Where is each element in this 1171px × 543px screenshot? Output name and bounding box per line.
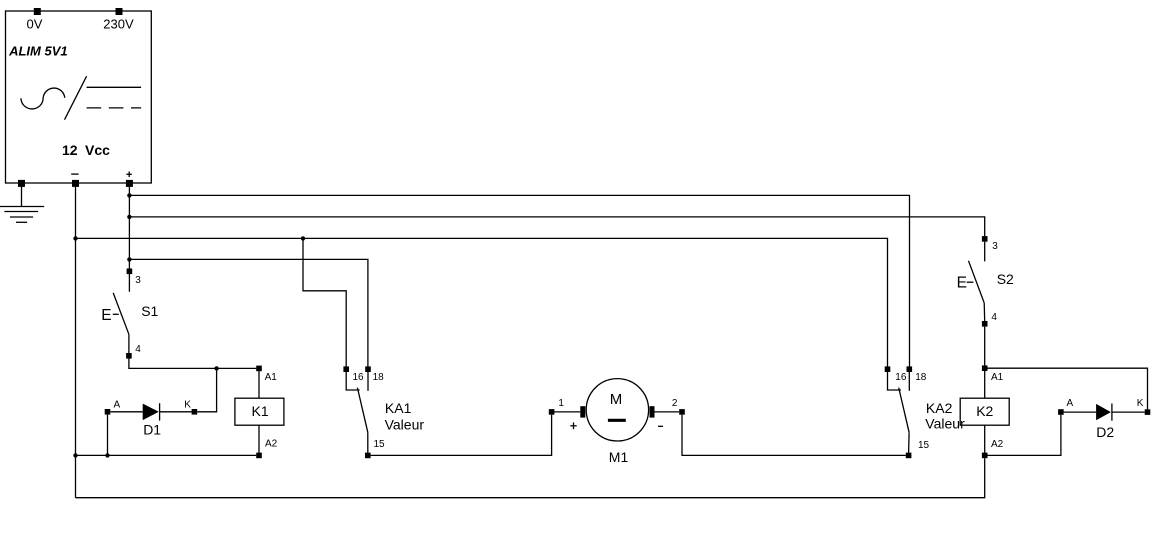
svg-text:D1: D1	[143, 422, 161, 438]
motor minus sign	[658, 425, 663, 427]
svg-text:12: 12	[62, 142, 78, 158]
motor terminal 1	[549, 409, 555, 415]
supply minus sign	[71, 173, 78, 175]
wire minus bus to KA2 pin 16	[76, 238, 888, 366]
wire plus to KA1 pin 18	[129, 259, 368, 366]
wire D1 anode down	[107, 415, 109, 456]
D1 cathode terminal	[192, 409, 198, 415]
svg-text:M: M	[610, 391, 623, 408]
KA2 terminal 18	[907, 366, 913, 372]
svg-text:A: A	[1067, 398, 1074, 409]
svg-text:3: 3	[135, 275, 141, 286]
svg-text:KA1: KA1	[385, 400, 412, 416]
relay contact KA1	[346, 372, 368, 453]
D1 anode terminal	[105, 409, 111, 415]
wire ground stem	[21, 183, 23, 206]
svg-text:E: E	[101, 307, 111, 324]
svg-text:S2: S2	[997, 271, 1014, 287]
supply terminal plus	[126, 180, 133, 187]
K1 terminal A1	[256, 366, 262, 372]
wire K1 A1 to coil	[258, 371, 260, 398]
svg-text:230V: 230V	[103, 16, 134, 31]
power supply U1 box ALIM 5V1	[6, 11, 152, 183]
wire plus vertical to S1 pin 3	[128, 183, 130, 268]
svg-text:18: 18	[373, 372, 385, 383]
wire K2 coil to A2	[984, 425, 986, 453]
junction node on plus bus 3	[127, 257, 131, 261]
KA2 terminal 16	[885, 366, 891, 372]
svg-text:K2: K2	[976, 403, 993, 419]
diode D2	[1064, 404, 1145, 421]
wire minus vertical bus	[75, 183, 77, 497]
AC/DC converter symbol	[21, 76, 141, 120]
wire K2 A1 to D2 cathode	[988, 368, 1148, 409]
wire plus to S2 pin 3	[129, 217, 984, 236]
junction node minus bus to KA1-16	[301, 236, 305, 240]
supply plus sign	[126, 172, 131, 178]
svg-text:16: 16	[895, 372, 907, 383]
svg-text:0V: 0V	[27, 17, 43, 32]
wire S2 pin4 to K2 A1	[984, 327, 986, 366]
svg-text:Vcc: Vcc	[85, 142, 110, 158]
K2 terminal A2	[982, 453, 988, 459]
svg-text:A1: A1	[991, 372, 1004, 383]
ground symbol	[0, 207, 44, 223]
D2 cathode terminal	[1145, 409, 1151, 415]
svg-text:ALIM 5V1: ALIM 5V1	[8, 44, 68, 59]
svg-text:M1: M1	[609, 449, 629, 465]
relay coil K1	[235, 398, 284, 425]
junction node S1-4 / D1 cathode	[214, 366, 218, 370]
svg-text:4: 4	[135, 344, 141, 355]
svg-text:A1: A1	[265, 372, 278, 383]
svg-text:K: K	[184, 400, 191, 411]
switch S1	[113, 274, 130, 353]
junction node D1 anode rail	[105, 453, 109, 457]
svg-text:S1: S1	[141, 303, 158, 319]
D2 anode terminal	[1058, 409, 1064, 415]
svg-text:D2: D2	[1096, 424, 1114, 440]
svg-text:K1: K1	[252, 403, 269, 419]
svg-text:18: 18	[915, 372, 927, 383]
wire K1 coil to A2	[258, 425, 260, 453]
svg-text:A2: A2	[265, 439, 278, 450]
diode D1	[110, 403, 191, 420]
S1 pin 4 terminal	[126, 353, 132, 359]
relay contact KA2	[888, 372, 910, 453]
motor M1	[554, 379, 679, 441]
supply terminal 230V	[116, 8, 123, 15]
svg-text:A2: A2	[991, 439, 1004, 450]
supply ground terminal	[18, 180, 25, 187]
svg-text:Valeur: Valeur	[385, 416, 425, 432]
svg-text:4: 4	[991, 312, 997, 323]
KA1 terminal 15	[365, 453, 371, 459]
supply terminal minus	[72, 180, 79, 187]
svg-text:15: 15	[918, 440, 930, 451]
junction node minus rail left	[73, 453, 77, 457]
wire left A2 rail	[76, 454, 257, 456]
svg-text:A: A	[114, 400, 121, 411]
supply terminal 0V	[34, 8, 41, 15]
svg-text:1: 1	[558, 398, 564, 409]
svg-text:16: 16	[353, 372, 365, 383]
svg-text:3: 3	[992, 241, 998, 252]
svg-text:E: E	[957, 274, 967, 291]
relay coil K2	[960, 398, 1009, 425]
wire S1 pin4 to K1 A1	[129, 359, 256, 369]
wire D1 cathode to node	[197, 368, 216, 411]
K1 terminal A2	[256, 453, 262, 459]
wire K2 A1 to coil	[984, 371, 986, 398]
junction node on minus bus	[73, 236, 77, 240]
svg-text:Valeur: Valeur	[925, 416, 965, 432]
KA2 terminal 15	[906, 453, 912, 459]
motor plus sign	[570, 422, 576, 429]
svg-text:2: 2	[672, 398, 678, 409]
svg-text:15: 15	[374, 439, 386, 450]
wire K2 A2 to D2 anode	[988, 415, 1061, 456]
K2 terminal A1	[982, 365, 988, 371]
motor terminal 2	[679, 409, 685, 415]
wire KA1 pin15 to motor pin1	[371, 415, 552, 456]
wire minus bus to KA1 pin 16	[303, 238, 346, 366]
junction node on plus bus 2	[127, 215, 131, 219]
KA1 terminal 18	[365, 366, 371, 372]
wire bottom return rail	[76, 458, 985, 497]
wire plus to KA2 pin 18	[129, 195, 909, 366]
svg-text:K: K	[1137, 398, 1144, 409]
wire motor pin2 to KA2 pin15	[682, 415, 906, 456]
S2 pin 4 terminal	[982, 321, 988, 327]
junction node on plus bus 1	[127, 193, 131, 197]
S2 pin 3 terminal	[982, 236, 988, 242]
svg-text:KA2: KA2	[926, 400, 953, 416]
S1 pin 3 terminal	[127, 269, 133, 275]
switch S2	[967, 242, 985, 321]
KA1 terminal 16	[343, 366, 349, 372]
